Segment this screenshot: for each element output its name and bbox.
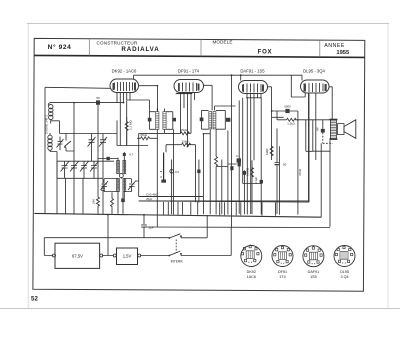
svg-text:FOX: FOX [258, 49, 273, 55]
svg-text:240: 240 [92, 199, 96, 204]
filament supply line [134, 75, 303, 80]
main bus [34, 213, 321, 217]
svg-text:1AC6: 1AC6 [247, 275, 256, 279]
osc block coils [117, 161, 126, 192]
bus comb verticals [163, 202, 275, 216]
comp 5000 cap [272, 104, 298, 113]
svg-text:CADRE 240-1: CADRE 240-1 [45, 115, 49, 134]
svg-text:2,2 MΩ: 2,2 MΩ [129, 119, 133, 130]
wires below MF1 [139, 129, 181, 227]
battery B1 box [53, 243, 103, 268]
resistor R 240 vert [83, 178, 100, 214]
switch S2 INTERR [168, 228, 231, 264]
svg-text:0,1μF: 0,1μF [254, 177, 258, 184]
svg-text:52: 52 [31, 296, 38, 303]
V2 pin header bar [176, 93, 193, 94]
V4 bracket left [291, 75, 305, 97]
svg-text:RADIALVA: RADIALVA [121, 46, 159, 53]
svg-text:1MΩ: 1MΩ [265, 148, 269, 155]
svg-text:1T4: 1T4 [279, 275, 285, 279]
speaker cap dashed [316, 120, 333, 217]
resistor vert x112 [111, 192, 114, 214]
svg-text:DF91: DF91 [278, 270, 287, 274]
R 2.2M vertical [125, 117, 132, 146]
mid verticals group A [172, 145, 199, 214]
antenna coil L2 [48, 135, 52, 150]
wire y117 right of V3 [239, 98, 283, 214]
svg-text:DL95: DL95 [340, 270, 349, 274]
V4 pins long [309, 93, 316, 202]
capacitor C ant [96, 96, 100, 105]
electrolytic dark x163.6 [160, 153, 166, 183]
cap x123 [121, 192, 125, 214]
antenna coil L1 [48, 103, 53, 120]
schematic frame [33, 38, 365, 291]
V2 pins [181, 93, 195, 147]
socket P2 [272, 246, 293, 279]
wires tuning row [57, 161, 114, 214]
socket P3 [303, 246, 324, 279]
svg-text:INTERR.: INTERR. [171, 260, 184, 264]
switch S ant [64, 134, 74, 152]
R 47k mid [180, 128, 191, 135]
svg-text:0,5: 0,5 [175, 170, 179, 174]
tuning cap CV3 [80, 161, 89, 178]
pot junction circle [170, 170, 174, 174]
padder trimmer pair [66, 134, 117, 214]
coil link wires [50, 120, 66, 214]
long vertical x74 [73, 103, 75, 214]
svg-text:N° 924: N° 924 [48, 43, 72, 51]
comp 4.7k top [123, 153, 134, 157]
cap 2uF at 144 [141, 215, 154, 238]
svg-text:3 Q4: 3 Q4 [341, 275, 349, 279]
tuning cap CV4 [90, 161, 99, 178]
comp dots B [230, 166, 233, 170]
svg-text:CV2-460: CV2-460 [146, 192, 157, 196]
svg-text:DAF91 - 1S5: DAF91 - 1S5 [240, 69, 265, 74]
svg-text:67,5V: 67,5V [72, 254, 83, 259]
speaker output transformer [329, 119, 337, 227]
tube V3 DAF91 [239, 69, 268, 94]
osc trimmers [101, 179, 136, 192]
junction dots [73, 74, 299, 216]
dark comp x98 [97, 105, 99, 197]
rail R1 [139, 195, 203, 197]
svg-text:1,5V: 1,5V [123, 254, 132, 259]
rail R4 [144, 226, 330, 229]
socket P4 [334, 245, 355, 278]
switch S1 [168, 215, 207, 239]
V1 pin wires down [117, 100, 127, 145]
speaker [338, 120, 356, 139]
trimmer CT1 [57, 137, 64, 151]
svg-text:ANNEE: ANNEE [324, 43, 345, 49]
CV2 wires right of osc [135, 133, 309, 201]
MF2 transformer [200, 106, 236, 129]
wire y145.5 [117, 145, 148, 147]
battery link wires [103, 215, 169, 256]
V4 right wire to output transformer [329, 87, 332, 119]
svg-text:50: 50 [283, 163, 287, 167]
tube V1 DK92 [110, 69, 139, 93]
MF1 transformer [148, 108, 176, 129]
svg-text:47kΩ: 47kΩ [298, 168, 302, 176]
tube V4 DL95 [301, 69, 330, 94]
header bottom double line [34, 55, 365, 57]
osc block wires [118, 152, 124, 214]
svg-text:50: 50 [96, 96, 100, 100]
svg-text:DL95 - 3Q4: DL95 - 3Q4 [303, 69, 325, 74]
gang dashed link [175, 240, 177, 253]
wire antenna top [50, 102, 124, 104]
header texts [48, 40, 350, 56]
V2 right wire to MF2 [204, 85, 213, 110]
comp at 108,158.5 [98, 157, 118, 160]
svg-text:5000: 5000 [284, 104, 291, 108]
svg-text:HP: HP [316, 127, 320, 131]
V3 pins bracket [246, 94, 262, 215]
battery feed wire [44, 238, 169, 256]
svg-text:MODELE: MODELE [212, 40, 232, 45]
speaker box [306, 120, 331, 152]
rail R2 with corner [139, 93, 309, 202]
R 22k mid2 [166, 139, 196, 152]
wires below MF2 [203, 129, 210, 214]
tuning cap CV2 [70, 161, 79, 178]
svg-text:22kΩ: 22kΩ [181, 139, 189, 143]
svg-text:DK92: DK92 [247, 270, 256, 274]
mid verticals group B [216, 98, 279, 215]
V3 right wire [268, 87, 272, 160]
svg-text:1,2kΩ: 1,2kΩ [287, 121, 294, 125]
svg-text:25pF: 25pF [146, 197, 153, 201]
R 1.2k [277, 118, 307, 125]
vertical x231 long [231, 75, 233, 227]
R 47k below MF1 [137, 133, 158, 140]
wire left drop [44, 87, 46, 213]
svg-text:1955: 1955 [336, 50, 350, 56]
V1 pins [117, 93, 130, 146]
tuning cap CV1 [61, 161, 70, 178]
wire top-left to V1 [45, 87, 110, 88]
electrolytic 50 [275, 129, 287, 214]
R 1M vert on x271.7 [265, 146, 273, 156]
svg-text:4,7: 4,7 [129, 153, 134, 157]
svg-text:0,1: 0,1 [236, 154, 240, 158]
battery B2 box [113, 248, 140, 265]
svg-text:47kΩ: 47kΩ [180, 128, 188, 132]
header dividers [88, 39, 90, 56]
tube V2 DF91 [174, 69, 204, 93]
svg-text:2μF: 2μF [149, 226, 154, 230]
wire B+ to speaker top [277, 111, 331, 215]
svg-text:DK92 - 1AC6: DK92 - 1AC6 [112, 69, 137, 74]
socket P1 [241, 245, 262, 279]
svg-text:DF91 - 1T4: DF91 - 1T4 [178, 69, 200, 74]
svg-text:1S5: 1S5 [310, 275, 317, 279]
V1 plate wire to MF1 [139, 86, 158, 112]
V1 pin3 to MF1 [127, 100, 150, 112]
R zigzag x216 [215, 157, 228, 167]
svg-text:10MΩ: 10MΩ [246, 167, 250, 176]
comp 0.1 at 238.5,160.5 [228, 154, 261, 183]
svg-text:DAF91: DAF91 [308, 270, 319, 274]
